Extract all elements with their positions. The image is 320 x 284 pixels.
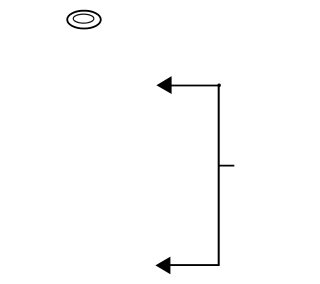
- wire vertical: [218, 85, 220, 265]
- tick stub right: [218, 165, 234, 167]
- junction dot top corner: [217, 83, 221, 87]
- wire top horizontal: [171, 85, 220, 87]
- arrowhead top (points left): [156, 76, 171, 94]
- ring outer ellipse: [67, 11, 101, 29]
- ring inner ellipse: [73, 14, 94, 23]
- wire bottom horizontal: [170, 264, 219, 266]
- arrowhead bottom (points left): [155, 257, 170, 275]
